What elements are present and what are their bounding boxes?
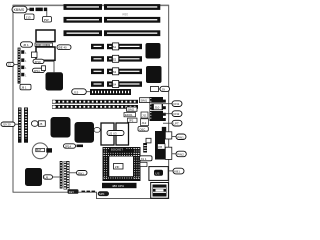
svg-text:SW1: SW1 bbox=[78, 171, 85, 175]
label above cache A bbox=[124, 113, 136, 117]
power connector C2 bbox=[155, 131, 165, 160]
board outline bbox=[13, 5, 169, 198]
oval KB2 bbox=[173, 168, 184, 174]
crystal X3 bbox=[143, 143, 147, 153]
oval PWR bbox=[176, 134, 186, 140]
svg-text:S3: S3 bbox=[113, 70, 117, 74]
oval FDC bbox=[21, 42, 33, 47]
keyboard connector oval J1 bbox=[12, 6, 27, 13]
wire bbox=[159, 88, 161, 90]
svg-text:BAT: BAT bbox=[36, 148, 41, 152]
label box R2 bbox=[141, 119, 149, 126]
oval LPT bbox=[172, 120, 182, 126]
VL-bus slot 3 bbox=[91, 68, 142, 75]
jumper JP2 bbox=[21, 58, 24, 62]
label on C2 bbox=[158, 144, 166, 149]
label on C1 bbox=[154, 104, 163, 110]
cache chip 2 bbox=[116, 123, 129, 145]
keyboard DIN B2 bbox=[151, 183, 169, 199]
chip U10 bbox=[146, 43, 161, 59]
pin header strip J3 bbox=[18, 48, 21, 84]
svg-text:JP10: JP10 bbox=[34, 60, 41, 64]
chip U5 bbox=[46, 72, 64, 90]
svg-text:SIM2: SIM2 bbox=[128, 108, 135, 112]
wire bbox=[53, 176, 60, 178]
jumper JP4 bbox=[21, 73, 24, 77]
svg-text:J12: J12 bbox=[142, 121, 147, 125]
oval label L2 bbox=[33, 68, 45, 72]
serial header C1 bbox=[150, 97, 164, 121]
SIMM label 1 bbox=[140, 98, 152, 103]
oval label L1 bbox=[33, 59, 44, 63]
connector box B1 bbox=[149, 167, 168, 181]
svg-text:CN1: CN1 bbox=[173, 102, 179, 106]
feature connector header bbox=[90, 89, 131, 95]
wire dashes bbox=[82, 191, 86, 193]
svg-text:ZIF: ZIF bbox=[115, 165, 120, 169]
wire bbox=[172, 136, 176, 138]
left edge oval W2 bbox=[1, 122, 15, 126]
DIP strip S1 bbox=[60, 161, 63, 189]
svg-text:J19 20: J19 20 bbox=[2, 123, 11, 127]
wire bbox=[163, 122, 172, 124]
battery bbox=[32, 143, 52, 159]
jumper box TB bbox=[42, 66, 46, 71]
svg-text:i486: i486 bbox=[122, 13, 128, 17]
svg-text:CN2: CN2 bbox=[173, 112, 179, 116]
dark label box bottom bbox=[68, 189, 79, 194]
ISA slot 2 bbox=[64, 17, 161, 23]
label box JP20b bbox=[39, 121, 46, 127]
label box FAN bbox=[140, 162, 147, 166]
svg-text:SIM1: SIM1 bbox=[141, 99, 148, 103]
svg-text:IDE 40: IDE 40 bbox=[58, 46, 67, 50]
svg-text:US: US bbox=[155, 171, 159, 175]
svg-text:P8: P8 bbox=[159, 145, 163, 149]
label box X1 bbox=[140, 156, 153, 161]
connector tab lower bbox=[165, 147, 172, 159]
label in B1 bbox=[154, 170, 163, 176]
jumper block JB bbox=[32, 52, 38, 58]
label box PW bbox=[43, 17, 52, 23]
cache chip 1 bbox=[101, 123, 114, 145]
wire bbox=[163, 103, 172, 105]
wire bbox=[163, 113, 172, 115]
chip U20 bottom left bbox=[25, 168, 42, 186]
oval IDE bbox=[57, 45, 71, 50]
svg-text:OSC: OSC bbox=[139, 127, 145, 131]
svg-text:J13: J13 bbox=[26, 15, 31, 19]
svg-text:PW1: PW1 bbox=[177, 135, 184, 139]
jumper JP3 bbox=[21, 66, 24, 70]
svg-text:KB/MS: KB/MS bbox=[14, 8, 25, 12]
label above cache B bbox=[128, 118, 138, 122]
svg-text:KB1: KB1 bbox=[174, 170, 180, 174]
wire bbox=[70, 172, 77, 174]
svg-text:PW: PW bbox=[44, 18, 49, 22]
oval above DIP bbox=[64, 144, 76, 148]
VL-bus slot 4 bbox=[91, 81, 142, 88]
chip U11 bbox=[146, 66, 162, 83]
chipset chip 1 bbox=[51, 117, 71, 138]
wire bbox=[172, 153, 176, 155]
label box R1 bbox=[141, 112, 148, 118]
svg-text:J8 1: J8 1 bbox=[21, 86, 27, 90]
wire bbox=[46, 11, 48, 16]
header strip B bbox=[24, 108, 28, 143]
top edge dark line bbox=[13, 4, 169, 6]
SIMM socket 2 bbox=[52, 105, 138, 109]
wire bbox=[44, 61, 54, 72]
cache oval label bbox=[107, 131, 124, 136]
label between bbox=[35, 43, 53, 46]
oval top right bbox=[160, 86, 170, 91]
SIMM socket 1 bbox=[52, 100, 138, 104]
CPU socket bbox=[103, 147, 141, 181]
wire bbox=[27, 8, 30, 10]
jumper bar bbox=[77, 145, 84, 148]
socket top label bbox=[110, 147, 126, 152]
svg-text:PW2: PW2 bbox=[177, 153, 184, 157]
svg-text:J10: J10 bbox=[155, 106, 160, 110]
oval left W1 bbox=[7, 62, 15, 66]
VL-bus slot 1 bbox=[91, 43, 142, 50]
oval right of DIP bbox=[77, 171, 88, 176]
svg-text:U2 U3: U2 U3 bbox=[109, 132, 117, 136]
connector box HD bbox=[36, 47, 55, 60]
svg-text:SPK: SPK bbox=[99, 192, 105, 196]
top right box bbox=[151, 87, 159, 92]
power connector segments bbox=[30, 8, 35, 11]
svg-text:X1 1: X1 1 bbox=[141, 157, 147, 161]
svg-text:J6 1: J6 1 bbox=[23, 43, 29, 47]
wire bbox=[86, 91, 90, 93]
label box J2 bbox=[25, 14, 35, 20]
oval COM2 bbox=[172, 111, 182, 117]
ISA slot 3 bbox=[64, 30, 161, 36]
CPU center label bbox=[114, 164, 124, 170]
svg-text:SOCKET: SOCKET bbox=[111, 148, 124, 152]
svg-text:LPT: LPT bbox=[173, 122, 179, 126]
svg-text:J5: J5 bbox=[39, 122, 42, 126]
svg-text:S4: S4 bbox=[113, 83, 117, 87]
wire bbox=[15, 123, 18, 125]
svg-text:J15: J15 bbox=[74, 90, 79, 94]
VL-bus slot 2 bbox=[91, 55, 142, 62]
oval label U9 bbox=[43, 175, 52, 179]
svg-text:JP11: JP11 bbox=[34, 69, 41, 73]
wire bbox=[168, 170, 173, 172]
svg-text:S2: S2 bbox=[113, 57, 117, 61]
CPU label bar below bbox=[102, 183, 137, 188]
oval label JP20 bbox=[32, 121, 39, 127]
svg-text:J9: J9 bbox=[162, 87, 166, 91]
tiny cap bbox=[162, 127, 166, 131]
jumper box right of crystal bbox=[146, 138, 151, 143]
ISA slot 1 bbox=[64, 4, 161, 10]
svg-text:JP2: JP2 bbox=[129, 119, 134, 123]
C1 pin tabs bbox=[163, 100, 166, 103]
connector box FD bbox=[36, 30, 55, 42]
oval PWR2 bbox=[176, 151, 186, 157]
jumper JP1 bbox=[21, 50, 24, 54]
oval E bbox=[94, 128, 100, 133]
wire bbox=[14, 63, 18, 65]
header strip A bbox=[18, 108, 22, 143]
svg-text:S1: S1 bbox=[113, 45, 117, 49]
label box OSC bbox=[138, 127, 148, 132]
svg-text:EDO1: EDO1 bbox=[125, 113, 133, 117]
feature connector oval label bbox=[72, 89, 87, 95]
chipset chip 2 bbox=[75, 122, 95, 143]
svg-text:KEY: KEY bbox=[69, 190, 75, 194]
svg-text:U9: U9 bbox=[45, 175, 49, 179]
oval COM1 bbox=[172, 101, 182, 107]
connector tab upper bbox=[165, 132, 172, 139]
svg-text:J11: J11 bbox=[142, 114, 147, 118]
svg-text:486 CPU: 486 CPU bbox=[112, 184, 124, 188]
DIP switch S2 bbox=[64, 161, 70, 190]
label box W bbox=[20, 84, 31, 90]
dark oval bottom bbox=[98, 191, 109, 196]
svg-text:JP14: JP14 bbox=[65, 144, 72, 148]
svg-text:J3: J3 bbox=[8, 63, 11, 67]
SIMM label 2 bbox=[127, 107, 138, 111]
